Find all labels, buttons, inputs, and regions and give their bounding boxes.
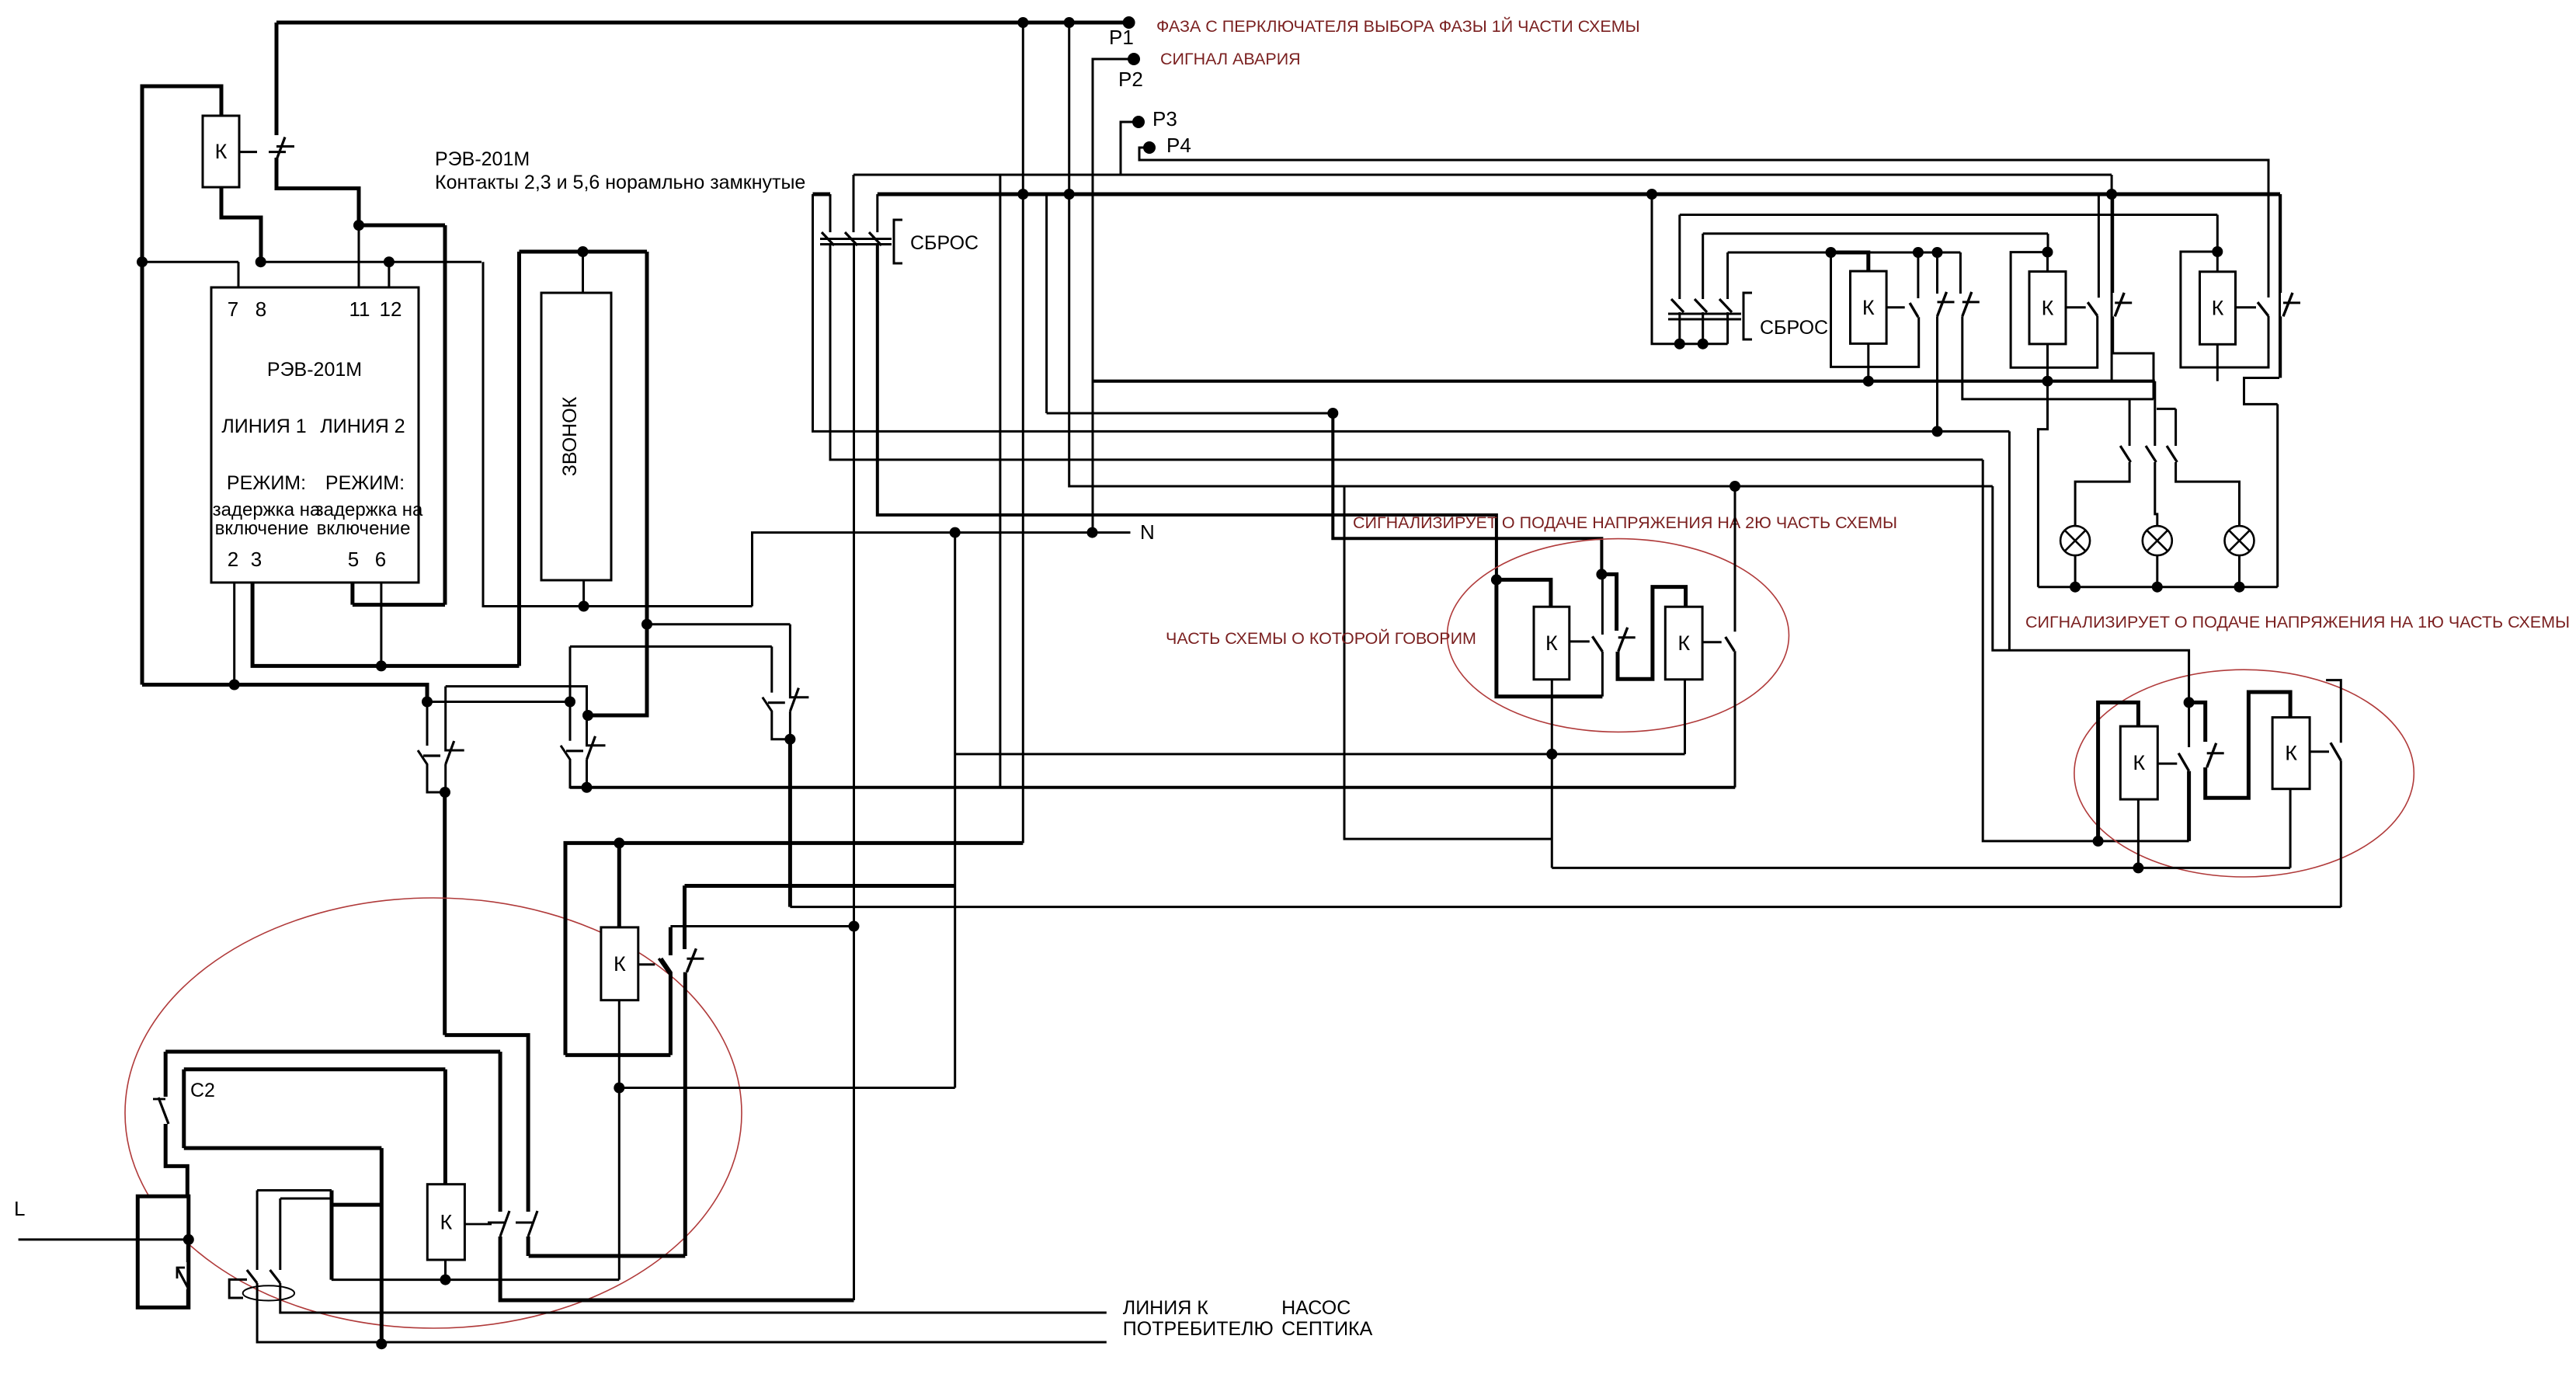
wire c2 lead: [164, 1052, 168, 1097]
wire drop 1377: [1069, 23, 1993, 486]
wire K4a stub: [2157, 763, 2177, 765]
wire sbros pole2 top: [853, 175, 855, 232]
wire KA bottom pin: [1867, 343, 1869, 381]
contact K5 c2: [687, 948, 704, 972]
contact 644 bar: [488, 1222, 505, 1224]
contact K4b arm: [2331, 743, 2341, 760]
lamp HL2: [2143, 526, 2172, 555]
wire A to B: [427, 701, 570, 703]
wire K5 stub: [638, 963, 655, 965]
wire KB Uloop: [2011, 252, 2098, 368]
relay coil K1: [203, 116, 239, 187]
junction bell rail 804: [641, 619, 652, 630]
junction 325 b: [1913, 247, 1924, 258]
svg-text:ЧАСТЬ СХЕМЫ О КОТОРОЙ ГОВОРИМ: ЧАСТЬ СХЕМЫ О КОТОРОЙ ГОВОРИМ: [1166, 628, 1476, 648]
junction bus250 d: [2106, 189, 2117, 200]
junction K2a top: [1491, 574, 1502, 585]
wire drop 573 low: [443, 792, 447, 1035]
svg-text:P3: P3: [1152, 107, 1177, 130]
svg-text:СИГНАЛИЗИРУЕТ О ПОДАЧЕ НАПРЯЖЕ: СИГНАЛИЗИРУЕТ О ПОДАЧЕ НАПРЯЖЕНИЯ НА 2Ю …: [1353, 513, 1897, 532]
wire node290 to right: [359, 224, 445, 228]
wire 572 to K: [443, 1070, 447, 1184]
svg-text:включение: включение: [317, 518, 411, 539]
wire sbros pole3 top: [876, 194, 878, 232]
wire K2a top link: [1497, 579, 1551, 607]
wire cp3 left feed: [570, 645, 772, 648]
highlight ellipse right: [2074, 670, 2414, 877]
svg-text:6: 6: [375, 548, 386, 571]
wire K2b stub: [1702, 641, 1722, 643]
wire p3 long line: [853, 174, 2112, 176]
wire riser 1731: [1344, 486, 1552, 839]
svg-text:НАСОС: НАСОС: [1281, 1297, 1351, 1319]
svg-text:P1: P1: [1109, 26, 1134, 49]
wire KA c3 out: [1962, 316, 2154, 399]
junction pin12: [384, 256, 395, 267]
contact KC arm: [2258, 302, 2268, 316]
junction K6 pin: [440, 1275, 451, 1285]
highlight ellipse middle: [1448, 539, 1789, 732]
relay coil K5: [601, 927, 638, 1000]
contact K1 slash: [276, 137, 286, 162]
terminal P1: [1123, 16, 1135, 29]
junction 1716 532: [1327, 408, 1338, 419]
wire main bus 491: [1093, 380, 2155, 383]
wire KA c2 lead: [1936, 252, 1938, 294]
contact lampsw B slash: [2167, 446, 2177, 462]
junction K5 pin 1400: [614, 1083, 624, 1094]
relay coil K4b: [2272, 718, 2310, 789]
wire bus 1354: [165, 1050, 500, 1054]
highlight ellipse left: [125, 898, 742, 1328]
svg-text:РЕЖИМ:: РЕЖИМ:: [325, 472, 405, 494]
wire below K1 contact: [276, 158, 359, 225]
wire K4b stub: [2310, 750, 2329, 753]
wire KB c2 lead: [2112, 194, 2114, 293]
wire pole line 325: [1728, 252, 1961, 254]
wire rsbros bar1: [1668, 313, 1741, 315]
wire P4: [1139, 148, 2268, 297]
svg-text:К: К: [2212, 297, 2224, 320]
junction KB top: [2042, 247, 2053, 258]
wire top bus drop upper: [275, 23, 279, 135]
junction pin7 bus: [137, 256, 148, 267]
bell ZVONOK: [541, 293, 611, 580]
junction K4a Uleg: [2093, 836, 2104, 847]
wire main sw low: [186, 1289, 189, 1307]
contact pair K a: [418, 687, 464, 792]
wire K5 bottom pin: [618, 1000, 621, 1280]
junction node B: [565, 697, 575, 708]
contact KB c2: [2115, 293, 2132, 317]
svg-text:5: 5: [348, 548, 359, 571]
contact KA c3: [1962, 292, 1980, 316]
wire N drop 1230: [954, 533, 956, 1088]
junction lowK top: [614, 837, 624, 848]
wire KC c2 out: [2279, 316, 2282, 377]
wire 626 to cluster: [1993, 486, 2189, 702]
contact lampsw A slash: [2120, 446, 2130, 462]
wire K4a c1 out: [2187, 771, 2191, 841]
wire long bus N1: [570, 786, 1735, 789]
svg-text:СБРОС: СБРОС: [910, 232, 979, 254]
junction busN1 c2: [582, 782, 593, 793]
junction 626 node: [1730, 481, 1740, 492]
wire KC stub: [2236, 306, 2257, 308]
contact K2a arm: [1592, 636, 1602, 652]
wire cp4 right out: [683, 972, 687, 1256]
svg-text:ЗВОНОК: ЗВОНОК: [559, 396, 581, 476]
wire KB c2 out: [2113, 316, 2154, 399]
wire pole line 277: [1680, 214, 2218, 216]
wire rsbros pole1: [1678, 215, 1681, 300]
wire K1 coil stub: [239, 151, 257, 153]
wire rsbros pole2: [1702, 234, 1704, 299]
terminal P3: [1132, 116, 1145, 128]
junction KC top: [2212, 246, 2223, 257]
contact K5 arm: [659, 958, 669, 974]
wire link 1617: [529, 1254, 686, 1258]
wire pin2 drop: [233, 583, 235, 685]
svg-text:L: L: [14, 1197, 25, 1220]
wire K2a bottom pin: [1551, 680, 1553, 868]
svg-text:N: N: [1140, 520, 1155, 544]
contact KC c2: [2283, 293, 2300, 317]
wire K2 S path low: [1618, 587, 1686, 680]
wire pin11 riser: [358, 225, 360, 287]
wire drop 1017: [788, 739, 792, 907]
wire KC bottom pin: [2216, 344, 2219, 381]
wire 644 drop: [499, 1052, 502, 1212]
timer relay REV-201M: [211, 287, 419, 583]
wire rsbros pole3 low: [1726, 312, 1729, 344]
svg-text:7: 7: [228, 297, 238, 321]
wire main bus 250: [878, 193, 2280, 197]
wire 491 drop: [380, 1148, 384, 1344]
svg-text:К: К: [1862, 296, 1875, 319]
wire cp3 right feed: [647, 623, 790, 625]
wire bus250 stub: [813, 193, 831, 197]
junction rsbros b2: [1698, 339, 1709, 350]
wire K2a stub: [1570, 640, 1590, 642]
contact rsbros pole1 slash: [1671, 299, 1684, 312]
svg-text:ФАЗА С ПЕРКЛЮЧАТЕЛЯ ВЫБОРА ФАЗ: ФАЗА С ПЕРКЛЮЧАТЕЛЯ ВЫБОРА ФАЗЫ 1Й ЧАСТИ…: [1156, 16, 1640, 36]
wire sbros bar1: [820, 238, 892, 240]
junction bus250 e: [1646, 189, 1657, 200]
junction 491 bus: [376, 1338, 387, 1349]
junction bus250 a: [1017, 189, 1028, 200]
junction 325 a: [1826, 247, 1837, 258]
wire bus 971: [955, 753, 1685, 755]
junction N b: [1087, 527, 1098, 538]
svg-text:СИГНАЛИЗИРУЕТ О ПОДАЧЕ НАПРЯЖЕ: СИГНАЛИЗИРУЕТ О ПОДАЧЕ НАПРЯЖЕНИЯ НА 1Ю …: [2025, 613, 2570, 631]
lamp HL1: [2060, 526, 2090, 555]
contact K4a arm: [2178, 753, 2188, 771]
wire bus 1478: [184, 1146, 381, 1150]
svg-text:К: К: [2042, 296, 2054, 319]
wire p3 drop 2719: [2111, 175, 2113, 381]
junction N a: [950, 527, 961, 538]
wire KB c1 lead: [2098, 194, 2100, 297]
svg-text:К: К: [1677, 631, 1690, 655]
wire lampsw B hook: [2157, 408, 2176, 410]
wire lamp2 bottom: [2156, 555, 2158, 587]
wire sbros bar2: [820, 243, 892, 245]
wire sbros pole2 low: [853, 245, 855, 1300]
relay coil K3c: [2200, 272, 2236, 345]
svg-text:P2: P2: [1118, 68, 1143, 91]
wire KC Uloop: [2181, 252, 2268, 367]
wire pump pole2 low: [280, 1283, 1107, 1313]
wire pump pole2 link: [280, 1198, 332, 1200]
junction lamp3: [2234, 582, 2245, 593]
wire L line: [19, 1238, 189, 1240]
contact rsbros pole2 slash: [1695, 299, 1707, 312]
wire pin5 link: [353, 603, 445, 607]
bracket sbros: [894, 220, 902, 263]
junction contact1 out: [440, 787, 450, 798]
wire line 592 drop: [1983, 460, 2188, 841]
wire P4 long: [1139, 159, 2268, 162]
contact 644 slash: [500, 1211, 509, 1237]
contact sbros pole3 slash: [869, 232, 881, 245]
relay coil K2a: [1534, 607, 1570, 680]
wire sbros pole3 low: [878, 245, 1497, 579]
contact K drop680 slash: [528, 1211, 537, 1237]
svg-text:ЛИНИЯ К: ЛИНИЯ К: [1123, 1297, 1208, 1319]
wire rsbros bar2: [1668, 318, 1741, 321]
junction bell top: [578, 246, 589, 257]
contact KA c2: [1938, 292, 1955, 316]
wire KB top feed: [2047, 234, 2049, 252]
svg-text:К: К: [215, 140, 228, 163]
terminal P2: [1128, 53, 1140, 65]
wire sbros enclosure left: [813, 194, 2010, 431]
pump lamp ellipse: [243, 1285, 294, 1300]
wire KA c3 lead: [1959, 252, 1962, 294]
wire KB stub: [2066, 306, 2086, 308]
junction top bus b: [1064, 17, 1075, 28]
wire K2b bottom pin: [1684, 680, 1686, 754]
relay coil K6: [427, 1184, 464, 1260]
wire sbros pole1: [829, 194, 832, 232]
contact K2b arm: [1726, 637, 1735, 651]
wire K1 bottom to pin8 node: [221, 187, 261, 262]
junction pin2 node: [229, 680, 240, 690]
wire 1140 link: [685, 884, 955, 888]
relay coil K3b: [2029, 272, 2066, 344]
wire K2a Uloop: [1497, 579, 1602, 696]
svg-text:12: 12: [380, 297, 402, 321]
wire KB top pin: [2046, 252, 2049, 272]
contact lampsw mid slash: [2146, 446, 2156, 462]
wire K4b bottom pin: [2289, 789, 2292, 868]
wire pin12 drop: [483, 262, 753, 606]
junction node A: [422, 697, 433, 708]
junction KA pin: [1863, 376, 1874, 387]
wire pin3 link: [252, 583, 519, 666]
svg-text:8: 8: [256, 297, 266, 321]
wire K4b nc out: [2340, 760, 2342, 907]
wire pin12 stub: [388, 262, 390, 287]
wire pole line 301: [1703, 232, 2048, 235]
wire K2a contact out: [1601, 652, 1604, 697]
wire pin7 stub: [238, 262, 240, 287]
wire jog 573-680: [445, 1035, 528, 1212]
junction L node: [183, 1234, 194, 1245]
wire contact K1 stub right: [276, 145, 294, 148]
junction node C: [582, 710, 593, 721]
wire lamp bus: [2038, 586, 2277, 588]
wire K4b nc lead: [2326, 680, 2341, 743]
wire bell top pin: [582, 252, 584, 293]
junction bus250 b: [1064, 189, 1075, 200]
wire pin6 drop: [380, 583, 382, 666]
contact sbros pole2 slash: [845, 232, 857, 245]
contact pair K b: [561, 646, 606, 787]
junction 1099 1192: [849, 921, 860, 932]
junction rsbros b1: [1674, 339, 1685, 350]
svg-text:2: 2: [228, 548, 238, 571]
svg-text:РЕЖИМ:: РЕЖИМ:: [227, 472, 306, 494]
wire K2b nc lead: [1734, 486, 1736, 631]
wire K5 top pin: [617, 843, 621, 927]
wire line 692: [1333, 413, 1601, 574]
junction K4a pin: [2133, 862, 2143, 873]
contact pump1 slash: [247, 1270, 257, 1283]
wire K1 feed top-left: [142, 86, 221, 685]
junction pin6 end: [376, 660, 387, 671]
wire right rail 2933: [2276, 404, 2279, 586]
wire bus B3: [790, 906, 2341, 908]
wire lampsw B low: [2176, 462, 2240, 526]
svg-text:P4: P4: [1166, 134, 1191, 157]
wire cp4 left lead: [669, 927, 673, 955]
junction top bus a: [1017, 17, 1028, 28]
wire K4a bottom pin: [2137, 799, 2140, 868]
wire link 1400: [619, 1087, 954, 1089]
wire 1551 link: [332, 1203, 381, 1207]
junction cp3 out: [784, 734, 795, 745]
wire lampsw poleA top: [2129, 399, 2131, 446]
wire P3: [1121, 122, 1139, 175]
wire cp4 chevron: [661, 958, 670, 1055]
wire N line: [753, 533, 1131, 607]
contact pair K c: [763, 624, 809, 739]
wire bus 1648: [332, 1278, 620, 1281]
wire lampsw mid low: [2155, 462, 2157, 526]
wire pump pole1: [256, 1191, 259, 1271]
contact KA arm: [1910, 303, 1918, 317]
switch box main: [137, 1196, 189, 1307]
wire phase top bus: [276, 21, 1129, 25]
wire rsbros bottom: [1652, 194, 1728, 344]
wire rsbros pole1 low: [1678, 312, 1681, 344]
wire sbros pole1 low: [830, 245, 1983, 460]
wire drop 1317: [1022, 23, 1024, 843]
junction K2 mid top: [1596, 569, 1607, 579]
wire drop 1347: [1045, 194, 1048, 413]
wire cp4 right lead: [683, 885, 687, 949]
wire sbros enclosure right: [999, 175, 1001, 788]
wire bus 1377: [184, 1067, 446, 1071]
junction 555 node: [1932, 426, 1943, 437]
wire KA c2 out: [1936, 316, 1938, 431]
wire 644 low: [500, 1237, 853, 1300]
relay coil K2b: [1665, 607, 1702, 680]
wire bell left rail: [517, 252, 521, 666]
wire rsbros pole2 low: [1702, 312, 1704, 344]
wire K6 stub: [464, 1223, 492, 1226]
contact main sw slash: [177, 1268, 188, 1288]
contact sbros pole1 slash: [822, 232, 834, 245]
svg-text:К: К: [2133, 751, 2145, 774]
wire 2587 drop: [2008, 431, 2011, 650]
wire 236 drop: [182, 1070, 186, 1148]
wire P2: [1093, 59, 1134, 533]
svg-text:ЛИНИЯ 1: ЛИНИЯ 1: [221, 416, 306, 437]
contact main sw tick: [177, 1268, 185, 1278]
contact C2 slash: [158, 1097, 169, 1124]
wire KC top pin: [2216, 215, 2219, 272]
wire bus R2: [1552, 867, 2290, 869]
wire KC c2 lead: [2279, 194, 2282, 293]
wire KA Uloop: [1831, 252, 1919, 367]
wire K2 mid lead: [1601, 574, 1604, 635]
wire K4a top link: [2098, 702, 2139, 841]
contact pump2 slash: [270, 1270, 280, 1283]
wire lamp1 bottom: [2074, 555, 2077, 587]
svg-text:задержка на: задержка на: [213, 499, 321, 520]
junction K4 mid top: [2184, 697, 2195, 708]
wire K4a nc lead: [2188, 702, 2190, 747]
wire bell bottom pin: [582, 580, 585, 607]
wire pump top link: [257, 1189, 332, 1191]
svg-text:Контакты 2,3 и 5,6 норамльно з: Контакты 2,3 и 5,6 норамльно замкнутые: [435, 172, 805, 193]
wire K4 S path: [2189, 702, 2206, 742]
svg-text:К: К: [440, 1210, 452, 1233]
wire K2b nc out: [1734, 651, 1736, 788]
wire pump pole2 top: [279, 1198, 281, 1270]
wire line 532: [1047, 412, 1333, 415]
wire bell top bus: [520, 250, 648, 254]
wire KB bottom pin: [2038, 344, 2047, 587]
svg-text:К: К: [614, 952, 626, 976]
svg-text:задержка на: задержка на: [315, 499, 423, 520]
wire 427 drop: [330, 1191, 334, 1280]
svg-text:ПОТРЕБИТЕЛЮ: ПОТРЕБИТЕЛЮ: [1123, 1318, 1274, 1340]
svg-text:СБРОС: СБРОС: [1760, 317, 1828, 339]
contact rsbros pole3 slash: [1719, 299, 1732, 312]
contact 680 bar: [516, 1222, 533, 1224]
junction lamp2: [2152, 582, 2163, 593]
junction 325 c: [1932, 247, 1943, 258]
contact K2 mid slash: [1618, 628, 1636, 652]
svg-text:СИГНАЛ АВАРИЯ: СИГНАЛ АВАРИЯ: [1160, 50, 1301, 68]
junction pin8: [256, 256, 266, 267]
wire K4 S low: [2206, 692, 2290, 798]
plug symbol: [229, 1279, 247, 1298]
wire c2 low: [165, 1124, 187, 1196]
svg-text:РЭВ-201М: РЭВ-201М: [435, 148, 530, 170]
wire c2 tick: [153, 1098, 165, 1101]
svg-text:СЕПТИКА: СЕПТИКА: [1281, 1318, 1373, 1340]
wire KA stub: [1886, 306, 1905, 308]
wire lamp3 bottom: [2238, 555, 2241, 587]
wire KA c1 lead: [1917, 252, 1919, 298]
wire lampsw B top: [2174, 409, 2177, 446]
svg-text:C2: C2: [190, 1080, 215, 1101]
